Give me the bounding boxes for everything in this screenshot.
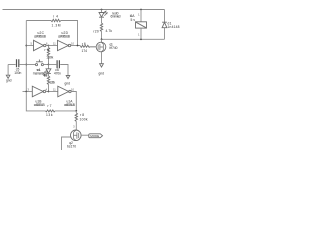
svg-text:r6: r6 <box>82 42 86 46</box>
svg-text:MODE: MODE <box>90 134 99 138</box>
svg-text:gnd: gnd <box>99 72 105 76</box>
svg-text:r4: r4 <box>53 15 58 19</box>
svg-text:irf740: irf740 <box>110 46 118 50</box>
svg-text:cd4069UB: cd4069UB <box>34 103 46 107</box>
svg-text:100k: 100k <box>80 117 88 121</box>
svg-text:bs170: bs170 <box>67 145 76 149</box>
svg-text:r8: r8 <box>80 113 84 117</box>
svg-text:r20: r20 <box>93 29 98 33</box>
svg-text:130k: 130k <box>46 55 53 59</box>
svg-text:1n4148: 1n4148 <box>168 25 180 29</box>
svg-text:4148: 4148 <box>43 74 48 78</box>
svg-text:gnd: gnd <box>65 82 71 86</box>
svg-text:r7: r7 <box>48 104 52 108</box>
svg-text:1.3M: 1.3M <box>52 23 61 27</box>
svg-text:174: 174 <box>82 49 88 53</box>
svg-text:470n: 470n <box>54 72 61 76</box>
svg-text:100n: 100n <box>14 71 21 75</box>
svg-text:4.7k: 4.7k <box>106 29 113 33</box>
svg-text:130k: 130k <box>49 81 55 85</box>
svg-text:cd4069UB: cd4069UB <box>64 103 76 107</box>
svg-text:cd4069UB: cd4069UB <box>34 35 47 39</box>
svg-text:r5: r5 <box>45 48 50 52</box>
svg-text:6mm red: 6mm red <box>111 15 121 19</box>
svg-text:gnd: gnd <box>6 79 12 83</box>
svg-text:13k: 13k <box>46 113 53 117</box>
svg-text:cd4069UB: cd4069UB <box>58 35 71 39</box>
svg-text:5v: 5v <box>131 18 136 22</box>
